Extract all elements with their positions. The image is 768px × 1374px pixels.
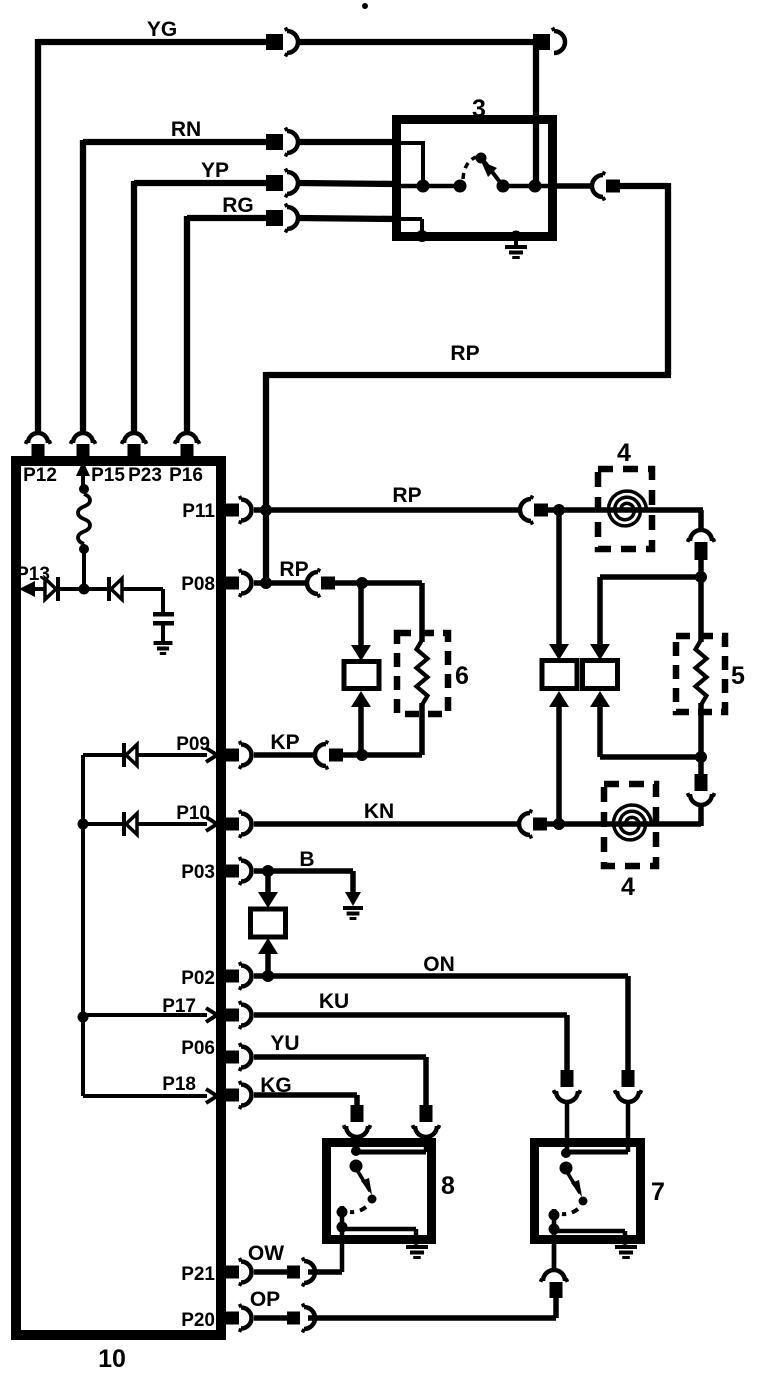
svg-text:KG: KG	[260, 1074, 292, 1097]
svg-text:P03: P03	[181, 862, 215, 883]
svg-text:P17: P17	[162, 996, 196, 1017]
svg-text:YP: YP	[201, 159, 229, 182]
svg-text:P10: P10	[176, 803, 210, 824]
svg-text:P09: P09	[176, 734, 210, 755]
svg-text:3: 3	[472, 95, 486, 123]
svg-text:7: 7	[651, 1178, 665, 1206]
svg-text:P06: P06	[181, 1038, 215, 1059]
svg-text:ON: ON	[423, 953, 455, 976]
svg-text:YU: YU	[270, 1032, 299, 1055]
svg-text:P15: P15	[91, 465, 125, 486]
svg-text:P18: P18	[162, 1074, 196, 1095]
svg-text:OP: OP	[250, 1288, 280, 1311]
svg-text:B: B	[299, 848, 314, 871]
svg-text:RP: RP	[392, 484, 421, 507]
svg-text:5: 5	[731, 662, 745, 690]
svg-text:P21: P21	[181, 1264, 215, 1285]
svg-text:YG: YG	[147, 18, 177, 41]
svg-text:P16: P16	[169, 465, 203, 486]
svg-text:KP: KP	[270, 731, 299, 754]
svg-text:RP: RP	[279, 558, 308, 581]
svg-text:6: 6	[455, 662, 469, 690]
svg-text:4: 4	[617, 439, 631, 467]
svg-text:KU: KU	[319, 990, 349, 1013]
svg-text:P02: P02	[181, 968, 215, 989]
svg-text:P23: P23	[128, 465, 162, 486]
svg-text:RP: RP	[450, 342, 479, 365]
svg-text:KN: KN	[364, 800, 394, 823]
svg-text:P12: P12	[23, 465, 57, 486]
svg-text:10: 10	[98, 1345, 126, 1373]
svg-text:RG: RG	[222, 194, 254, 217]
svg-text:8: 8	[441, 1172, 455, 1200]
svg-text:P11: P11	[182, 501, 215, 522]
svg-text:RN: RN	[171, 118, 201, 141]
svg-text:P20: P20	[181, 1310, 215, 1331]
svg-text:4: 4	[621, 873, 635, 901]
svg-text:OW: OW	[248, 1242, 284, 1265]
svg-text:P08: P08	[181, 574, 215, 595]
